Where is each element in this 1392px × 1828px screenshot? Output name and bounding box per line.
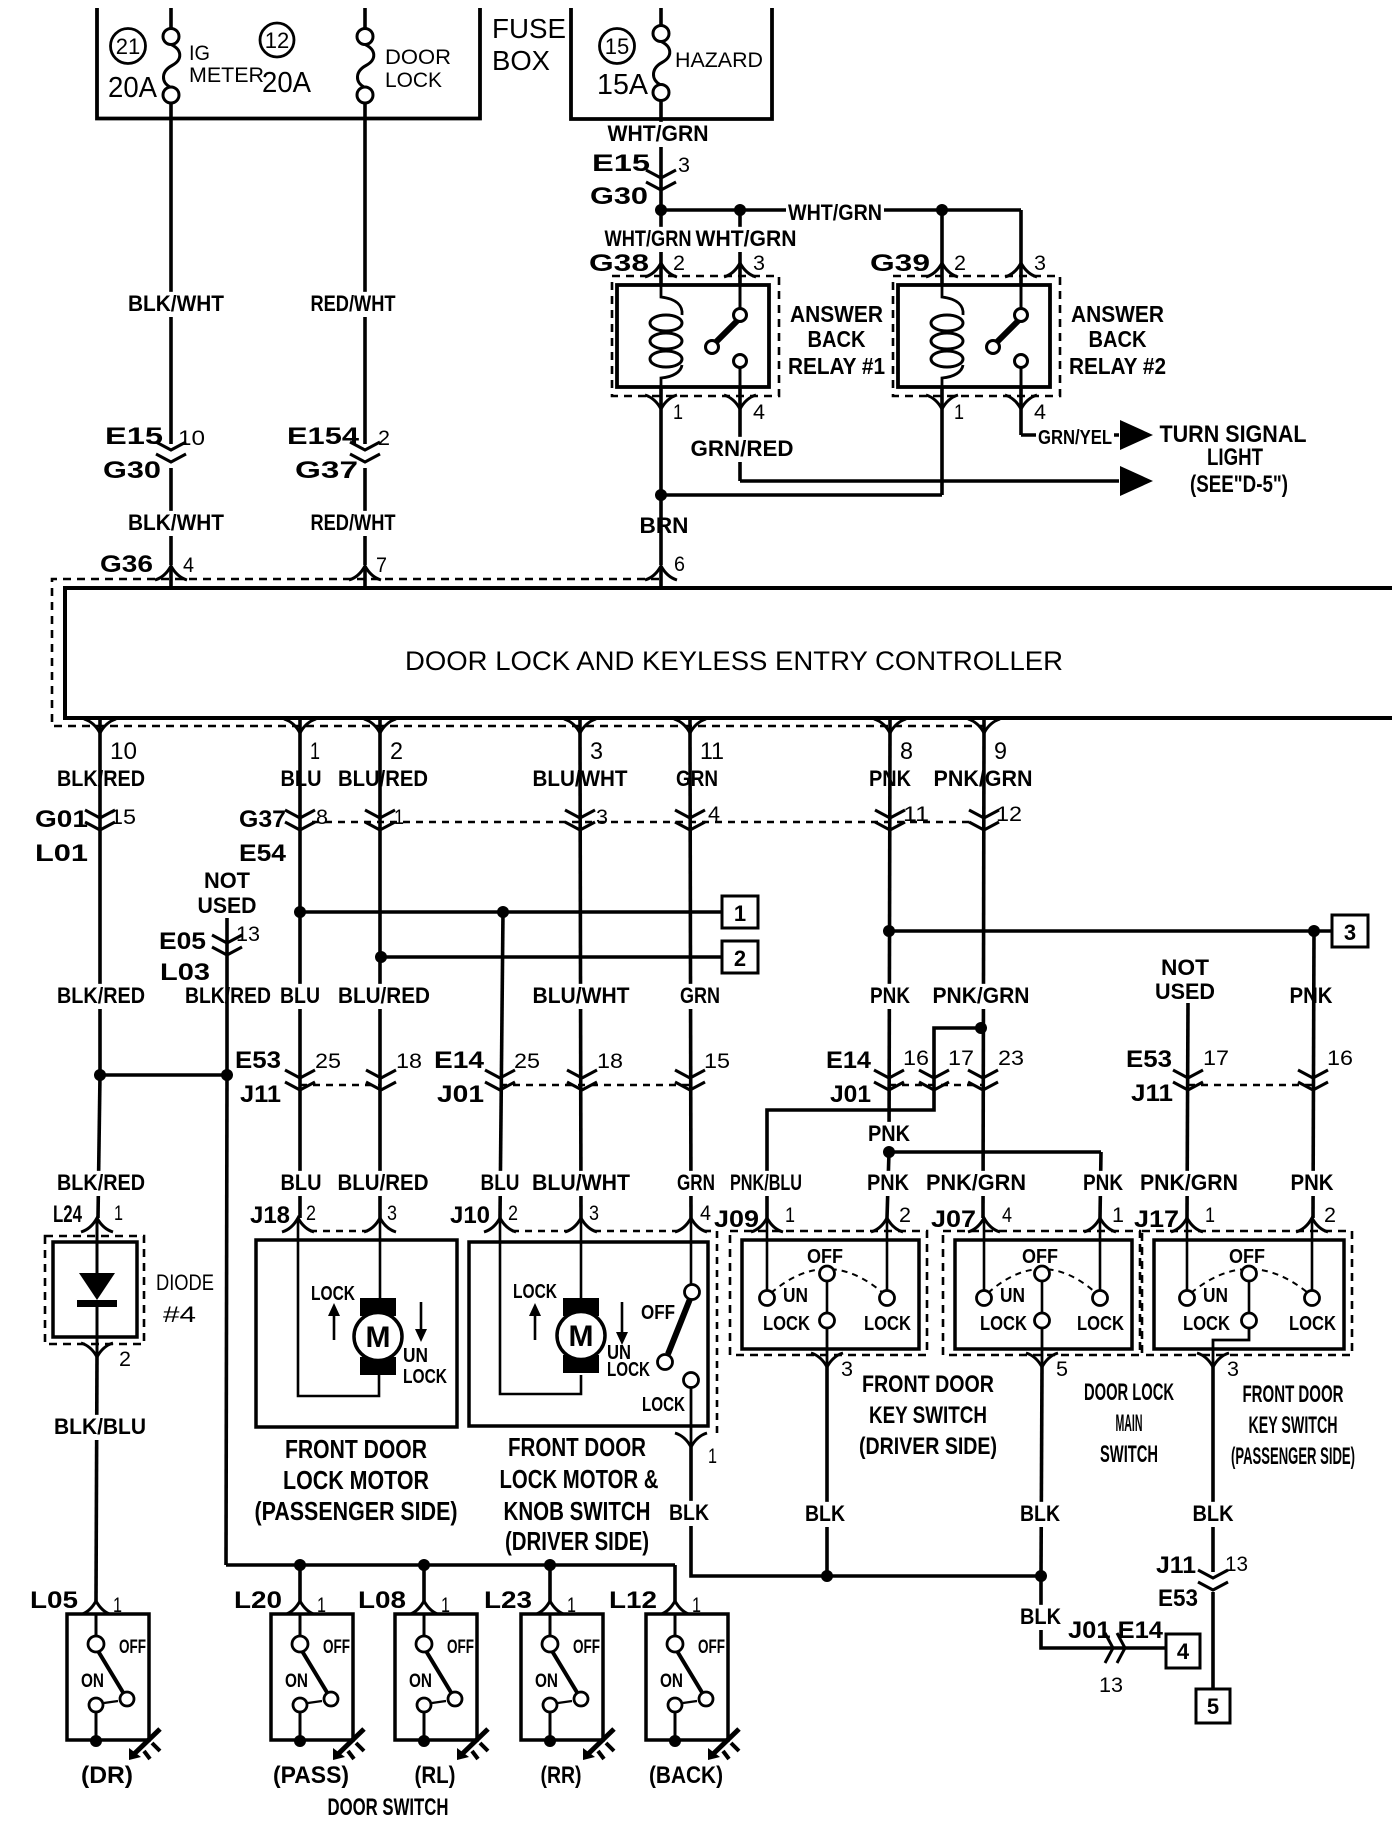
svg-text:LOCK: LOCK [980, 1313, 1027, 1335]
wire PNK branch to J17 pin2 [1313, 931, 1314, 1218]
wire color labels row 2 [55, 984, 147, 1009]
wire to G39 pin2 [940, 210, 944, 285]
svg-text:G37: G37 [239, 806, 286, 833]
wire BLU branch to J10 [500, 912, 503, 1218]
wire J10 internal BLU/WHT [580, 1218, 583, 1299]
svg-text:WHT/GRN: WHT/GRN [608, 121, 709, 146]
svg-text:BLU: BLU [481, 1170, 520, 1195]
controller pin 6 [645, 566, 677, 580]
svg-text:M: M [569, 1320, 594, 1353]
controller bottom pin 11 [688, 718, 692, 733]
connector J17 output pin 3 [1212, 1349, 1215, 1367]
svg-text:BLK: BLK [1020, 1604, 1061, 1629]
svg-text:LOCK: LOCK [513, 1281, 557, 1303]
svg-text:25: 25 [514, 1050, 540, 1073]
svg-text:10: 10 [178, 427, 205, 450]
svg-text:4: 4 [183, 554, 194, 577]
svg-text:BLK/RED: BLK/RED [57, 1170, 145, 1195]
svg-text:1: 1 [394, 806, 404, 829]
svg-text:ANSWER: ANSWER [790, 301, 883, 327]
svg-text:G30: G30 [103, 457, 161, 484]
svg-text:J18: J18 [250, 1202, 290, 1229]
wire BLK from J10 [691, 1447, 1041, 1576]
svg-text:KEY SWITCH: KEY SWITCH [1249, 1412, 1338, 1439]
svg-text:11: 11 [700, 738, 724, 765]
svg-text:PNK: PNK [1291, 1170, 1334, 1195]
svg-text:PNK: PNK [867, 1170, 909, 1195]
controller bottom pin 10 [98, 718, 102, 733]
svg-text:E53: E53 [235, 1047, 281, 1074]
svg-text:13: 13 [1225, 1553, 1248, 1576]
svg-text:5: 5 [1207, 1694, 1219, 1719]
wire door switch bus [226, 1563, 675, 1567]
wire L23 drop [548, 1565, 552, 1601]
svg-text:3: 3 [1344, 920, 1356, 945]
svg-text:RED/WHT: RED/WHT [311, 510, 396, 535]
controller bottom pin 8 [888, 718, 892, 733]
svg-text:(PASS): (PASS) [273, 1762, 349, 1789]
node box 2 line [375, 951, 387, 963]
svg-text:GRN: GRN [677, 1170, 715, 1195]
svg-text:E53: E53 [1126, 1046, 1172, 1073]
unlock arrow J10 [621, 1302, 624, 1336]
svg-text:NOT: NOT [204, 868, 251, 893]
node PNK junction [883, 1146, 895, 1158]
motor unit J10 box [469, 1242, 708, 1426]
svg-text:3: 3 [590, 738, 603, 765]
svg-text:L12: L12 [609, 1587, 657, 1614]
connector J07 output pin 5 [1041, 1349, 1044, 1367]
svg-text:BLU: BLU [281, 1170, 322, 1195]
fuse F15 HAZARD 15A [659, 8, 663, 26]
svg-text:USED: USED [1155, 979, 1215, 1004]
svg-text:RELAY #2: RELAY #2 [1069, 353, 1166, 379]
svg-text:2: 2 [673, 252, 685, 275]
wire PNK to J09 pin2 [887, 1152, 889, 1218]
svg-text:L08: L08 [358, 1587, 406, 1614]
svg-text:LOCK: LOCK [385, 69, 442, 92]
svg-text:BLK: BLK [805, 1501, 845, 1526]
svg-text:6: 6 [674, 553, 685, 576]
svg-text:G30: G30 [590, 183, 648, 210]
svg-text:BLK/RED: BLK/RED [57, 983, 145, 1008]
svg-text:RELAY #1: RELAY #1 [788, 353, 885, 379]
svg-text:PNK/GRN: PNK/GRN [933, 983, 1030, 1008]
svg-text:LOCK: LOCK [763, 1313, 810, 1335]
svg-text:LOCK: LOCK [1183, 1313, 1230, 1335]
unlock arrow J18 [420, 1302, 423, 1333]
svg-text:17: 17 [948, 1047, 974, 1070]
svg-text:16: 16 [903, 1047, 929, 1070]
svg-text:4: 4 [753, 401, 765, 424]
wire to G38 pin3 [738, 210, 742, 285]
svg-text:SWITCH: SWITCH [1100, 1441, 1158, 1468]
svg-text:LOCK MOTOR: LOCK MOTOR [283, 1465, 429, 1495]
node BLK/RED junction [94, 1069, 106, 1081]
svg-text:IG: IG [189, 42, 210, 65]
svg-text:J11: J11 [240, 1081, 281, 1108]
svg-text:3: 3 [387, 1202, 397, 1225]
svg-text:BACK: BACK [808, 326, 866, 352]
node box 1 line [294, 906, 306, 918]
node box 5 [1196, 1689, 1230, 1723]
controller box DOOR LOCK AND KEYLESS ENTRY CONTROLLER [65, 588, 1392, 718]
svg-text:LOCK: LOCK [607, 1359, 650, 1381]
svg-text:E14: E14 [826, 1047, 872, 1074]
svg-text:DOOR LOCK AND KEYLESS ENTRY CO: DOOR LOCK AND KEYLESS ENTRY CONTROLLER [405, 646, 1063, 676]
svg-text:DOOR: DOOR [385, 46, 451, 69]
svg-text:ON: ON [81, 1671, 104, 1692]
svg-text:OFF: OFF [119, 1637, 146, 1658]
svg-text:(PASSENGER SIDE): (PASSENGER SIDE) [1231, 1443, 1355, 1470]
svg-text:1: 1 [673, 401, 683, 424]
svg-text:RED/WHT: RED/WHT [311, 291, 396, 316]
svg-text:J17: J17 [1134, 1206, 1179, 1233]
wire color labels row 3 [55, 1171, 147, 1196]
svg-text:25: 25 [315, 1050, 341, 1073]
svg-text:BACK: BACK [1089, 326, 1147, 352]
wire BLK/WHT lower [169, 468, 173, 565]
svg-text:1: 1 [708, 1445, 717, 1468]
svg-text:18: 18 [396, 1050, 422, 1073]
svg-text:1: 1 [310, 738, 320, 765]
key switch J17 contacts [1186, 1218, 1189, 1291]
svg-text:2: 2 [1324, 1204, 1336, 1227]
relay G39 coil [942, 285, 963, 315]
node box 1 [722, 896, 758, 928]
svg-text:BLU/WHT: BLU/WHT [533, 983, 631, 1008]
svg-text:2: 2 [390, 738, 403, 765]
svg-text:OFF: OFF [807, 1246, 843, 1268]
svg-text:FRONT DOOR: FRONT DOOR [1243, 1381, 1344, 1408]
wire GRN/RED from G38 pin4 [738, 387, 742, 481]
svg-text:J01: J01 [830, 1081, 871, 1108]
svg-text:2: 2 [378, 427, 390, 450]
svg-text:17: 17 [1203, 1047, 1229, 1070]
svg-text:PNK/GRN: PNK/GRN [1140, 1170, 1238, 1195]
svg-text:PNK/BLU: PNK/BLU [730, 1170, 802, 1195]
svg-text:2: 2 [954, 252, 966, 275]
node BLK bus junctions [821, 1570, 833, 1582]
wire RED/WHT from F12 [363, 119, 367, 445]
svg-text:12: 12 [265, 28, 289, 53]
svg-text:ON: ON [285, 1671, 308, 1692]
diode L24 pin2 [81, 1343, 113, 1357]
wire BLK from J07 [1041, 1367, 1042, 1576]
wire J18 internal BLU [298, 1218, 379, 1396]
fuse element [163, 45, 179, 88]
wire J10 internal BLU [500, 1218, 581, 1394]
svg-text:DOOR SWITCH: DOOR SWITCH [328, 1794, 449, 1821]
svg-text:GRN/RED: GRN/RED [691, 436, 794, 461]
svg-text:LOCK: LOCK [642, 1394, 685, 1416]
fuse element [357, 45, 373, 88]
svg-text:BLK: BLK [1020, 1501, 1060, 1526]
connector J09 output pin 3 [826, 1349, 829, 1367]
controller dashed outline [52, 579, 985, 726]
wire BLK/WHT from F21 [169, 119, 173, 445]
svg-text:M: M [366, 1321, 391, 1354]
svg-text:LOCK: LOCK [864, 1313, 911, 1335]
wire GRN pin11 [690, 733, 691, 1218]
svg-text:L01: L01 [35, 840, 88, 867]
svg-text:BLK/WHT: BLK/WHT [128, 510, 225, 535]
svg-text:E15: E15 [105, 423, 163, 450]
svg-text:L20: L20 [234, 1587, 282, 1614]
controller bottom pin 3 [578, 718, 582, 733]
wire PNK/GRN jog to pin17 [767, 1028, 981, 1218]
svg-text:LOCK: LOCK [1289, 1313, 1336, 1335]
svg-text:BLK/BLU: BLK/BLU [54, 1414, 146, 1439]
wire RED/WHT lower [363, 468, 367, 565]
svg-text:ON: ON [409, 1671, 432, 1692]
svg-text:(DR): (DR) [81, 1762, 133, 1789]
svg-text:4: 4 [708, 803, 720, 826]
relay G39 dashed outline [893, 276, 1060, 396]
svg-text:2: 2 [734, 946, 746, 971]
svg-text:OFF: OFF [323, 1637, 350, 1658]
svg-text:BLU/RED: BLU/RED [338, 983, 430, 1008]
svg-text:3: 3 [1034, 252, 1046, 275]
wire WHT/GRN from F15 [659, 119, 663, 210]
svg-text:1: 1 [954, 401, 964, 424]
svg-text:G39: G39 [870, 250, 930, 277]
fuse box left compartment [97, 8, 480, 119]
svg-text:1: 1 [1112, 1204, 1124, 1227]
diode D4 symbol [96, 1218, 99, 1274]
svg-text:OFF: OFF [641, 1302, 675, 1324]
key switch J07 box [955, 1240, 1132, 1349]
svg-text:GRN: GRN [676, 766, 718, 791]
wire color labels row 1 [55, 767, 147, 792]
key switch J09 contacts [766, 1218, 769, 1291]
node box 2 [722, 941, 758, 973]
svg-text:J11: J11 [1131, 1080, 1173, 1107]
node box 3 line [883, 925, 895, 937]
svg-text:BLK: BLK [1193, 1501, 1234, 1526]
svg-text:3: 3 [1227, 1358, 1239, 1381]
svg-text:(DRIVER SIDE): (DRIVER SIDE) [859, 1433, 997, 1460]
key switch J17 box [1154, 1240, 1344, 1349]
svg-text:GRN/YEL: GRN/YEL [1038, 427, 1112, 449]
svg-text:L24: L24 [53, 1201, 82, 1228]
svg-text:J09: J09 [714, 1206, 759, 1233]
connector J01/E14 pin13 [1105, 1633, 1113, 1663]
svg-text:GRN: GRN [680, 983, 720, 1008]
motor M J10 [563, 1298, 599, 1316]
svg-text:15: 15 [110, 806, 136, 829]
svg-text:L05: L05 [30, 1587, 78, 1614]
svg-text:3: 3 [678, 154, 690, 177]
svg-text:MAIN: MAIN [1116, 1410, 1143, 1437]
fuse F12 DOOR LOCK 20A [363, 8, 367, 29]
svg-text:(SEE"D-5"): (SEE"D-5") [1190, 471, 1288, 498]
svg-text:4: 4 [700, 1202, 711, 1225]
svg-text:4: 4 [1177, 1639, 1190, 1664]
wire PNK to J07 pin1 [889, 1150, 1101, 1154]
wire PNK stub [866, 1122, 912, 1147]
svg-text:L03: L03 [160, 959, 210, 986]
wire BLK from J09 [825, 1367, 829, 1576]
svg-text:UN: UN [1000, 1285, 1025, 1307]
svg-text:12: 12 [996, 803, 1022, 826]
fuse element [653, 42, 669, 85]
wire BRN node to G39 pin1 [661, 493, 942, 497]
svg-text:NOT: NOT [1161, 955, 1210, 980]
svg-text:ON: ON [535, 1671, 558, 1692]
motor unit J18 box [256, 1240, 457, 1427]
wire to box 5 [1211, 1592, 1215, 1689]
node BRN junction [655, 489, 667, 501]
svg-text:HAZARD: HAZARD [675, 49, 763, 72]
svg-text:E53: E53 [1158, 1585, 1198, 1612]
svg-text:BOX: BOX [492, 45, 550, 76]
svg-text:2: 2 [306, 1202, 316, 1225]
svg-text:3: 3 [753, 252, 765, 275]
svg-text:21: 21 [116, 34, 140, 59]
wire J17 output jog [1213, 1327, 1249, 1349]
svg-text:PNK: PNK [870, 983, 910, 1008]
svg-text:ON: ON [660, 1671, 683, 1692]
ground L12 [711, 1729, 739, 1756]
svg-text:(BACK): (BACK) [649, 1762, 723, 1789]
wire BLU/WHT pin3 [580, 733, 581, 1218]
svg-text:1: 1 [734, 901, 746, 926]
svg-text:BLK/WHT: BLK/WHT [128, 291, 225, 316]
svg-text:15: 15 [704, 1050, 730, 1073]
svg-text:WHT/GRN: WHT/GRN [788, 200, 882, 225]
svg-text:OFF: OFF [1022, 1246, 1058, 1268]
controller pin 7 [349, 566, 381, 580]
svg-text:2: 2 [119, 1348, 131, 1371]
svg-text:2: 2 [899, 1204, 911, 1227]
svg-text:FUSE: FUSE [492, 13, 566, 44]
svg-text:E54: E54 [239, 840, 287, 867]
wire BLU pin1 [298, 733, 302, 1218]
svg-text:UN: UN [783, 1285, 808, 1307]
svg-text:BRN: BRN [640, 513, 689, 538]
svg-text:G01: G01 [35, 806, 88, 833]
svg-text:UN: UN [1203, 1285, 1228, 1307]
relay G38 coil [661, 285, 682, 315]
svg-text:15A: 15A [597, 69, 649, 101]
fuse box right compartment [571, 8, 772, 119]
svg-text:PNK: PNK [868, 1121, 910, 1146]
arrow to turn signal light (GRN/YEL) [1120, 420, 1153, 450]
svg-text:FRONT DOOR: FRONT DOOR [508, 1432, 646, 1462]
svg-text:J01: J01 [437, 1081, 484, 1108]
controller bottom pin 1 [298, 718, 302, 733]
svg-text:METER: METER [189, 64, 264, 87]
key switch J07 contacts [983, 1218, 986, 1291]
svg-text:DIODE: DIODE [156, 1270, 214, 1295]
diode L24 box [53, 1242, 137, 1337]
svg-text:15: 15 [605, 34, 629, 59]
svg-text:E05: E05 [159, 928, 206, 955]
svg-text:#4: #4 [163, 1302, 196, 1327]
svg-text:3: 3 [589, 1202, 599, 1225]
wire BLK/BLU to L05 [96, 1357, 97, 1601]
wire to G38 pin2 [659, 210, 663, 285]
wire BLK/RED to door switch bus [226, 1075, 227, 1565]
svg-text:E15: E15 [592, 150, 650, 177]
svg-text:G36: G36 [100, 551, 153, 578]
wire GRN/YEL from G39 pin4 [1019, 387, 1023, 435]
ground L08 [460, 1729, 488, 1756]
svg-text:13: 13 [1099, 1674, 1123, 1697]
svg-text:20A: 20A [262, 67, 312, 99]
relay G39 switch contact [1020, 285, 1023, 309]
svg-text:LOCK: LOCK [1077, 1313, 1124, 1335]
svg-text:(DRIVER SIDE): (DRIVER SIDE) [505, 1526, 649, 1556]
svg-text:18: 18 [597, 1050, 623, 1073]
svg-text:1: 1 [785, 1204, 795, 1227]
wire PNK pin8 [889, 733, 890, 1152]
svg-text:BLU/RED: BLU/RED [338, 1170, 429, 1195]
ground L05 [132, 1729, 160, 1756]
svg-text:BLU: BLU [280, 983, 320, 1008]
svg-text:10: 10 [110, 738, 137, 765]
svg-text:3: 3 [841, 1358, 853, 1381]
svg-text:FRONT DOOR: FRONT DOOR [862, 1371, 994, 1398]
wire BLK/RED pin10 [98, 733, 102, 1075]
svg-text:2: 2 [508, 1202, 518, 1225]
connector J10 dashed side [716, 1231, 719, 1437]
fuse F21 IG METER 20A [169, 8, 173, 29]
svg-text:23: 23 [998, 1047, 1024, 1070]
svg-text:WHT/GRN: WHT/GRN [696, 226, 797, 251]
svg-text:UN: UN [403, 1345, 428, 1367]
wire PNK/GRN pin9 [983, 733, 984, 1218]
svg-text:9: 9 [994, 738, 1007, 765]
svg-text:LOCK: LOCK [311, 1283, 355, 1305]
wire J18 internal BLU/RED [379, 1218, 382, 1299]
key switch J07 dashed outline [943, 1231, 1140, 1355]
svg-text:OFF: OFF [698, 1637, 725, 1658]
svg-text:BLU/WHT: BLU/WHT [532, 1170, 631, 1195]
wire to G39 pin3 [1019, 210, 1023, 285]
svg-text:(PASSENGER SIDE): (PASSENGER SIDE) [255, 1496, 458, 1526]
svg-text:J07: J07 [931, 1206, 976, 1233]
ground L23 [586, 1729, 614, 1756]
wire BRN to controller pin6 [659, 495, 663, 565]
fuse 12 circle label [260, 23, 294, 57]
svg-text:PNK: PNK [1083, 1170, 1123, 1195]
svg-text:4: 4 [1002, 1204, 1012, 1227]
svg-text:OFF: OFF [573, 1637, 600, 1658]
wire knob to pin1 [690, 1388, 693, 1448]
relay G38 dashed outline [612, 276, 779, 396]
svg-text:OFF: OFF [447, 1637, 474, 1658]
svg-text:4: 4 [1034, 401, 1046, 424]
wire NOT USED (E05/L03) [225, 918, 229, 1075]
relay G39 pins 1,4 [926, 395, 958, 409]
key switch J09 dashed outline [730, 1231, 927, 1355]
node box 4 [1166, 1634, 1200, 1668]
svg-text:5: 5 [1056, 1358, 1068, 1381]
svg-text:(RR): (RR) [541, 1762, 582, 1789]
svg-text:(RL): (RL) [415, 1762, 456, 1789]
node box 3 [1332, 915, 1368, 947]
svg-text:LIGHT: LIGHT [1207, 444, 1263, 471]
svg-text:J01 E14: J01 E14 [1068, 1617, 1164, 1644]
motor M J18 [360, 1298, 396, 1316]
wire L20 drop [298, 1565, 302, 1601]
key switch J17 dashed outline [1142, 1231, 1352, 1355]
svg-text:PNK/GRN: PNK/GRN [926, 1170, 1026, 1195]
relay G38 pins 1,4 [645, 395, 677, 409]
svg-text:1: 1 [1205, 1204, 1215, 1227]
